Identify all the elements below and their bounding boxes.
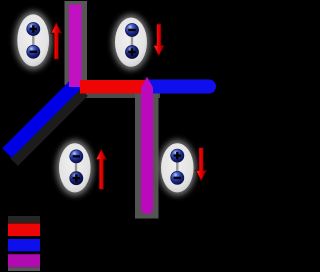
arrow up beside E1 [51, 23, 62, 60]
wire: red horizontal line [80, 80, 147, 94]
E1 plus charge (top) [27, 22, 40, 35]
dipole ellipse E3 body [59, 143, 91, 192]
dipole ellipse E2 (top-right) halo [112, 14, 150, 70]
E2 plus charge (bottom) [125, 45, 138, 58]
arrow up beside E3 [96, 149, 107, 190]
dipole ellipse E2 body [115, 18, 147, 67]
wire: magenta top vertical line [69, 5, 82, 88]
wire: magenta lower vertical line with pointed top, rounded bottom [141, 77, 153, 215]
legend black bar [8, 216, 40, 223]
wire: blue diagonal line [7, 81, 79, 153]
E3 plus charge (bottom) [70, 172, 83, 185]
E4 plus charge (top) [171, 149, 184, 162]
E3 connector line [75, 162, 77, 173]
E3 minus charge (top) [70, 150, 83, 163]
E1 minus charge (bottom) [27, 45, 40, 58]
legend gray bar (cut off) [8, 267, 40, 271]
dipole ellipse E4 (bottom-right) halo [158, 140, 196, 196]
arrow down beside E2 [153, 24, 164, 56]
E2 connector line [131, 36, 133, 48]
wire: blue horizontal line (right) [147, 80, 216, 94]
E2 minus charge (top) [125, 23, 138, 36]
dipole ellipse E3 (bottom-left) halo [56, 140, 94, 196]
wire shadow: gray under horizontal line [80, 94, 160, 99]
wire casing: gray halo of top vertical string [65, 1, 88, 85]
legend magenta bar [8, 254, 40, 267]
legend red bar [8, 223, 40, 236]
wire casing: gray halo of lower vertical string [135, 94, 159, 219]
dipole ellipse E1 body [17, 14, 49, 66]
E4 connector line [176, 162, 178, 173]
E1 connector line [32, 34, 34, 47]
wire shadow: faint gray under blue diagonal [14, 92, 84, 162]
arrow down beside E4 [196, 148, 207, 181]
E4 minus charge (bottom) [171, 171, 184, 184]
dipole ellipse E4 body [161, 143, 194, 192]
dipole ellipse E1 (top-left) halo [14, 11, 52, 70]
legend blue bar [8, 239, 40, 251]
